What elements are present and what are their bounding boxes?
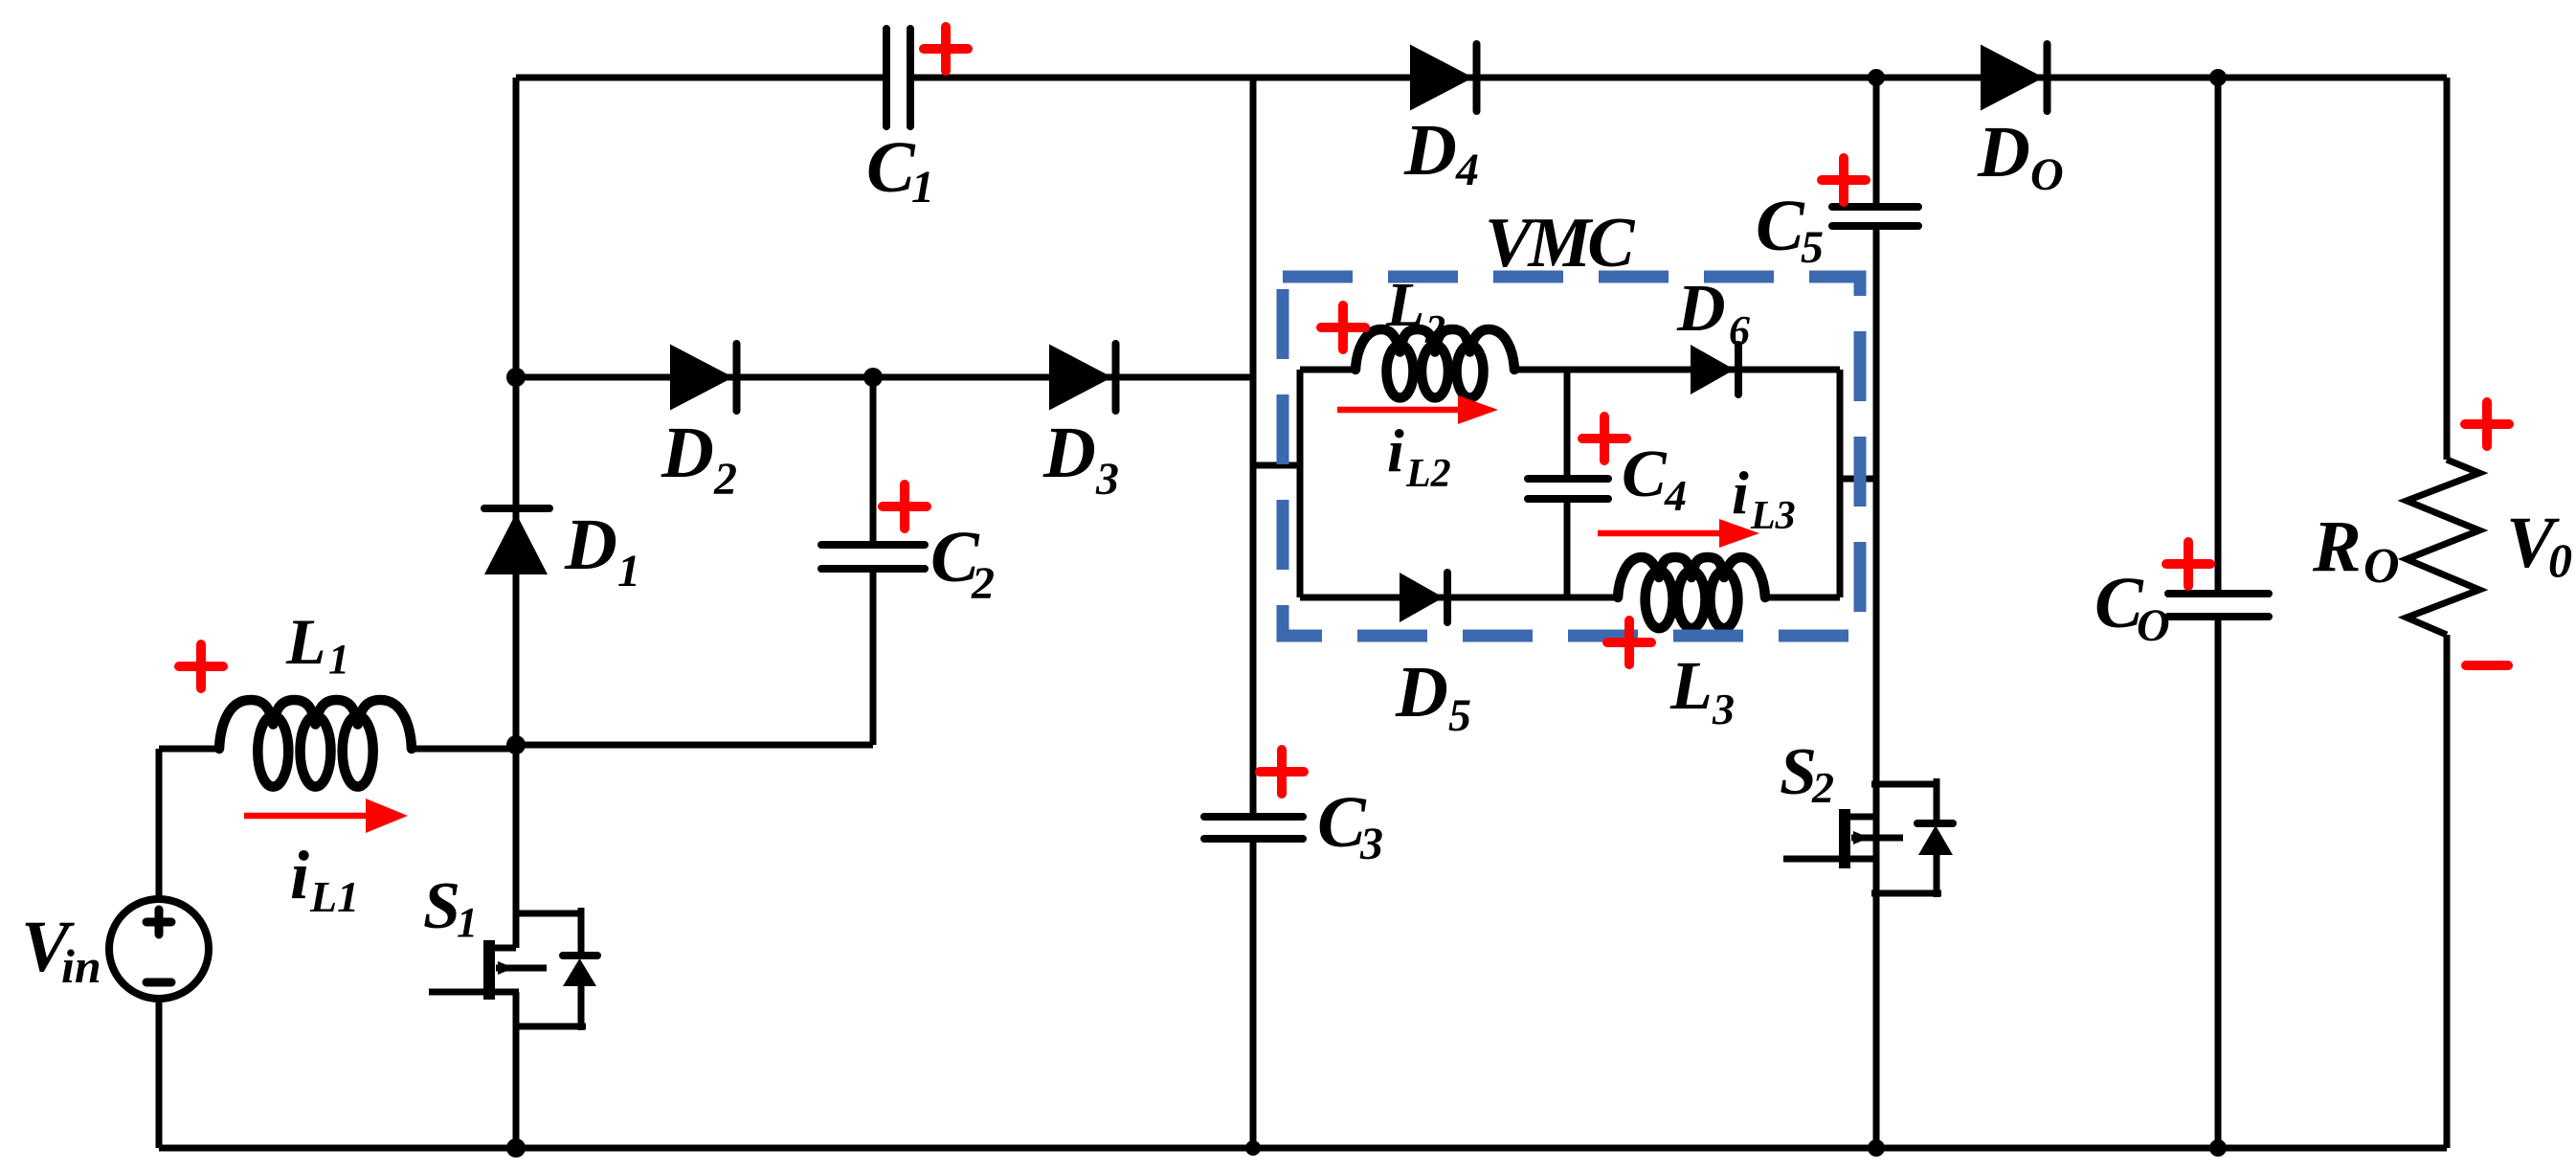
svg-text:1: 1 <box>617 546 640 596</box>
svg-text:i: i <box>1732 459 1749 527</box>
svg-text:L: L <box>285 605 326 678</box>
svg-text:O: O <box>2137 600 2170 651</box>
svg-text:L: L <box>1385 270 1424 340</box>
svg-text:4: 4 <box>1455 145 1479 195</box>
svg-text:L2: L2 <box>1405 452 1451 496</box>
svg-text:D: D <box>1676 272 1726 346</box>
svg-text:1: 1 <box>457 899 478 946</box>
svg-text:1: 1 <box>911 162 934 213</box>
svg-text:2: 2 <box>713 454 737 505</box>
svg-text:L1: L1 <box>309 872 359 921</box>
svg-text:O: O <box>2363 539 2400 594</box>
svg-text:i: i <box>1387 416 1404 484</box>
svg-text:D: D <box>1403 110 1457 191</box>
svg-text:3: 3 <box>1712 685 1735 733</box>
svg-text:2: 2 <box>1424 308 1445 352</box>
svg-text:S: S <box>423 869 460 943</box>
svg-text:5: 5 <box>1448 690 1471 741</box>
svg-text:2: 2 <box>1811 763 1834 812</box>
svg-text:i: i <box>290 837 309 913</box>
svg-text:R: R <box>2312 506 2362 587</box>
svg-text:D: D <box>564 505 617 585</box>
svg-text:L: L <box>1669 647 1713 724</box>
svg-text:D: D <box>661 413 714 493</box>
svg-text:D: D <box>1977 112 2030 192</box>
svg-text:O: O <box>2030 149 2064 200</box>
svg-text:2: 2 <box>971 558 995 609</box>
svg-text:in: in <box>61 939 101 993</box>
svg-text:D: D <box>1395 652 1448 732</box>
svg-text:0: 0 <box>2548 533 2572 587</box>
svg-text:D: D <box>1042 413 1096 493</box>
svg-text:C: C <box>866 127 916 208</box>
svg-text:C: C <box>1622 438 1668 511</box>
svg-text:L3: L3 <box>1750 494 1796 538</box>
svg-text:3: 3 <box>1095 454 1119 505</box>
svg-text:6: 6 <box>1729 307 1750 354</box>
svg-text:5: 5 <box>1801 222 1824 273</box>
svg-text:4: 4 <box>1664 471 1687 520</box>
svg-text:VMC: VMC <box>1485 204 1636 282</box>
svg-text:3: 3 <box>1359 819 1383 869</box>
svg-text:1: 1 <box>328 636 349 683</box>
svg-text:C: C <box>1756 186 1805 266</box>
